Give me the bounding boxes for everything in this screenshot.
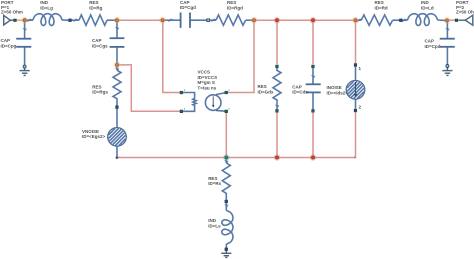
- svg-text:Z=50 Ohm: Z=50 Ohm: [456, 10, 474, 15]
- capacitor Cpd: [440, 39, 455, 47]
- wire T3 to Ld: [402, 19, 407, 21]
- label PORT2: [456, 0, 474, 15]
- wire Cpg to gnd terminal: [24, 48, 26, 66]
- label IND Lg: [40, 0, 53, 10]
- svg-text:ID=<Egs2>: ID=<Egs2>: [82, 134, 106, 139]
- svg-text:ID=Lg: ID=Lg: [40, 5, 53, 10]
- terminal T3: [400, 19, 403, 22]
- svg-text:CAP: CAP: [1, 38, 11, 43]
- node F (Cds top): [311, 19, 314, 22]
- terminal Cds bottom: [312, 110, 315, 113]
- wire Cds bottom: [312, 93, 314, 109]
- terminal T2: [207, 19, 210, 22]
- svg-text:ID=Ld: ID=Ld: [421, 5, 434, 10]
- node L (Cds bottom rail): [311, 156, 314, 159]
- wire INOISE top: [355, 66, 357, 80]
- terminal INOISE top: [354, 64, 357, 67]
- wire node H to port2: [449, 19, 456, 21]
- vccs source circle: [205, 95, 221, 111]
- pin tick Cds: [311, 75, 314, 77]
- port P1 terminal square: [14, 19, 16, 22]
- capacitor Cds: [306, 84, 321, 92]
- svg-text:ID=Rs: ID=Rs: [208, 181, 221, 186]
- wire Ld to node H: [438, 19, 446, 21]
- red wire VCCS out- down to source rail: [225, 113, 227, 156]
- wire node B to node C (red): [119, 19, 161, 21]
- svg-text:ID=Ls: ID=Ls: [208, 223, 221, 228]
- label CAP Cpg: [1, 38, 17, 48]
- wire Rgs to T4: [116, 101, 118, 106]
- wire Cgs to node I: [116, 48, 118, 64]
- resistor Rd: [361, 15, 392, 25]
- svg-text:T=tau ns: T=tau ns: [198, 85, 217, 90]
- label IND Ld: [421, 0, 434, 10]
- pin tick Cpg: [23, 28, 26, 30]
- svg-text:ID=Rd: ID=Rd: [375, 5, 388, 10]
- capacitor Cpg: [16, 39, 31, 47]
- wire Rg to node B: [107, 19, 116, 21]
- terminal T6: [225, 248, 228, 251]
- vccs pin 4: [225, 110, 228, 113]
- port P2 terminal square: [455, 19, 458, 22]
- terminal Gds bottom: [276, 110, 279, 113]
- wire node D to node G (red, drain rail): [256, 19, 354, 21]
- svg-text:ID=Cpg: ID=Cpg: [1, 44, 17, 49]
- pin tick Rs: [225, 160, 228, 162]
- wire Rgd to node D: [246, 19, 253, 21]
- inductor Lg: [33, 14, 62, 26]
- node G (drain ext): [354, 19, 357, 22]
- red wire node C down to VCCS plus: [163, 22, 180, 93]
- label VNOISE: [82, 129, 106, 139]
- label RES Rg: [89, 0, 102, 10]
- terminal INOISE bottom: [354, 109, 357, 112]
- pin tick Gds bottom: [275, 105, 278, 107]
- svg-text:ID=Rgd: ID=Rgd: [227, 5, 243, 10]
- red wire node E down to Gds: [276, 22, 278, 65]
- port P1: [4, 15, 14, 25]
- vccs pin 1: [180, 91, 183, 94]
- inoise ids2 circle: [346, 81, 365, 100]
- wire node B down to Cgs: [116, 22, 118, 38]
- label RES Rgs: [92, 85, 108, 95]
- svg-text:ID=Cgs: ID=Cgs: [92, 43, 108, 48]
- resistor Rgs: [113, 70, 121, 100]
- svg-text:ID=<ids2>: ID=<ids2>: [327, 90, 349, 95]
- inoise arrow: [355, 82, 357, 94]
- ring terminal gnd2: [446, 65, 449, 68]
- wire node C to Cgd: [164, 19, 180, 21]
- red wire node I to VCCS minus: [119, 65, 180, 111]
- node I (Cgs/Rgs junction): [115, 63, 118, 66]
- pin tick Rgs: [115, 68, 118, 70]
- svg-text:Z=50 Ohm: Z=50 Ohm: [1, 10, 23, 15]
- svg-text:ID=Cgd: ID=Cgd: [180, 5, 196, 10]
- wire Rs to T5: [225, 196, 227, 200]
- inductor Ld: [408, 14, 438, 26]
- red wire node F down to Cds: [312, 22, 314, 65]
- svg-text:VCCS: VCCS: [198, 70, 211, 75]
- node J (source junction): [225, 156, 228, 159]
- terminal Gds top: [276, 65, 279, 68]
- node C: [161, 19, 164, 22]
- wire Cgd to T2: [191, 19, 207, 21]
- svg-text:CAP: CAP: [92, 38, 102, 43]
- terminal T5: [225, 200, 228, 203]
- node H (drain port node): [445, 19, 448, 22]
- pin tick Ld: [403, 19, 407, 22]
- svg-text:ID=Rg: ID=Rg: [89, 5, 102, 10]
- vccs pin tick marks: [184, 89, 229, 110]
- wire Rd to T3: [393, 19, 400, 21]
- ground GND3: [221, 251, 231, 258]
- terminal T4: [116, 106, 119, 109]
- wire Gds to bottom terminal: [276, 103, 278, 110]
- wire node I to Rgs: [116, 67, 118, 71]
- node K (Gds bottom rail): [275, 156, 278, 159]
- label CAP Cpd: [425, 39, 441, 49]
- ring terminal gnd1: [23, 65, 26, 68]
- svg-text:ID=Cds: ID=Cds: [292, 90, 308, 95]
- wire port1 to node: [17, 19, 24, 21]
- capacitor Cgs: [110, 38, 125, 47]
- vccs pin 3: [225, 91, 228, 94]
- red wire Gds to source rail: [276, 112, 278, 156]
- svg-text:ID=Rgs: ID=Rgs: [92, 90, 108, 95]
- vccs arrow: [212, 96, 214, 105]
- resistor Rs: [222, 163, 230, 196]
- red wire VCCS out to node D rail: [228, 22, 254, 93]
- node E (Gds top): [275, 19, 278, 22]
- pin tick Cgs: [115, 27, 118, 29]
- red wire node G down to INOISE: [355, 22, 357, 64]
- terminal T1: [69, 19, 72, 22]
- wire T2 to Rgd: [210, 19, 216, 21]
- pin tick Rd: [358, 19, 362, 22]
- red wire INOISE to source rail corner: [354, 112, 356, 158]
- vccs U1: [180, 91, 228, 113]
- wire Lg to T1: [62, 19, 69, 21]
- resistor Rgd: [216, 15, 246, 25]
- label CAP Cgd: [180, 0, 196, 10]
- svg-text:ID=Cpd: ID=Cpd: [425, 44, 441, 49]
- vccs pin 2: [180, 110, 183, 113]
- pin tick Rg: [74, 19, 78, 22]
- wire T4 to VNOISE: [116, 109, 118, 128]
- ground GND1: [20, 68, 30, 75]
- resistor Gds: [273, 68, 281, 103]
- wire node H down to Cpd: [446, 22, 448, 38]
- vnoise Egs2 circle: [108, 128, 127, 147]
- wire Cpd to gnd terminal: [446, 48, 448, 65]
- pin tick Ls: [225, 204, 228, 206]
- terminal source-left dot: [116, 156, 119, 159]
- red wire Cds to source rail: [312, 112, 314, 156]
- inductor Ls: [222, 211, 233, 245]
- svg-text:ID=Gds: ID=Gds: [258, 89, 274, 94]
- label IND Ls: [208, 218, 221, 228]
- label RES Rd: [375, 0, 388, 10]
- wire VNOISE to rail: [116, 146, 118, 156]
- node B (internal gate): [115, 19, 118, 22]
- node D (drain int left): [252, 19, 255, 22]
- wire Ls to T6: [225, 244, 227, 248]
- label PORT1: [1, 0, 23, 15]
- wire T5 to Ls: [225, 203, 227, 211]
- svg-text:ID=VCCS: ID=VCCS: [198, 75, 218, 80]
- terminal Cds top: [312, 65, 315, 68]
- vccs sense element: [183, 93, 197, 112]
- label RES Rgd: [227, 0, 243, 10]
- label RES Gds: [258, 84, 274, 94]
- wire node G to Rd: [357, 19, 361, 21]
- label INOISE: [327, 85, 349, 95]
- pin tick Lg: [28, 19, 32, 22]
- wire INOISE bottom: [355, 99, 357, 109]
- pin tick Cgd: [169, 19, 173, 22]
- ground GND2: [442, 68, 452, 76]
- pin tick Rgd: [212, 19, 216, 22]
- wire node A down to Cpg: [24, 22, 26, 38]
- label VCCS: [198, 70, 218, 91]
- wire Cds top: [312, 68, 314, 84]
- vccs right connectors: [216, 93, 226, 95]
- label RES Rs: [208, 176, 221, 186]
- capacitor Cgd: [181, 13, 190, 28]
- wire T1 to Rg: [72, 19, 80, 21]
- node A (gate lead): [23, 19, 26, 22]
- resistor Rg: [79, 15, 107, 25]
- label CAP Cds: [292, 85, 308, 95]
- label CAP Cgs: [92, 38, 108, 48]
- svg-text:M=gm S: M=gm S: [198, 80, 215, 85]
- pin tick Cpd: [446, 28, 449, 30]
- red source rail: [117, 157, 356, 159]
- port P2: [458, 15, 473, 25]
- wire node J to Rs: [225, 159, 227, 163]
- wire node A to Lg: [26, 19, 33, 21]
- node halos: [22, 18, 449, 160]
